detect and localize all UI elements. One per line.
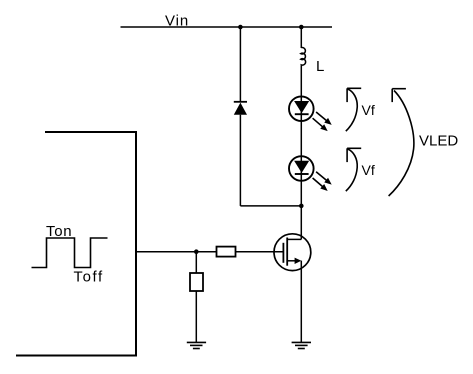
wire gate line from block [136,251,216,253]
node junction dot at switch node [299,204,304,209]
svg-text:L: L [316,58,324,75]
LED D3 (bottom LED) [289,156,334,193]
svg-text:Toff: Toff [74,269,104,286]
transistor Q1 (N-MOSFET) [274,234,311,271]
svg-text:Vf: Vf [362,102,375,118]
resistor R2 (gate pulldown) [190,273,203,291]
diode D1 (freewheel, cathode up) [234,102,247,115]
wire divider to resistor R2 [195,252,197,273]
wire diode branch upper [239,27,241,102]
controller block U1 outline [16,132,136,356]
resistor R1 (gate series) [217,247,236,257]
wire resistor to gate [236,251,284,253]
inductor L [301,48,306,67]
wire diode branch lower [239,115,241,206]
wire LED branch vertical [300,27,302,48]
ground (pulldown resistor) [187,342,206,348]
PWM waveform [32,238,108,268]
LED D2 (top LED) [289,96,334,133]
svg-text:Vf: Vf [362,162,375,178]
svg-text:VLED: VLED [419,132,458,149]
node junction dot at diode top [238,25,243,30]
wire MOSFET drain [300,206,302,240]
Vf arrow (top LED) [346,88,361,131]
svg-text:Ton: Ton [46,223,72,240]
node junction dot at inductor top [299,25,304,30]
svg-text:Vin: Vin [165,13,189,30]
Vf arrow (bottom LED) [346,148,361,191]
wire Vin rail [121,26,333,28]
wire MOSFET source [300,261,302,343]
node junction dot at gate resistor divider [194,249,199,254]
wire resistor R2 to ground [195,291,197,342]
VLED arrow [389,89,414,196]
ground (MOSFET source) [292,342,311,348]
wire switch node horizontal [240,205,301,207]
